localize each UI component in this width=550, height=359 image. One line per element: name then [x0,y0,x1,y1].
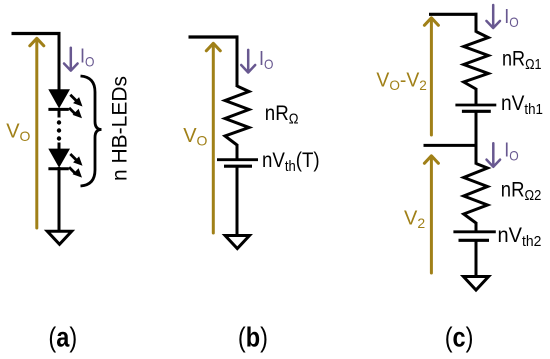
wire vertical-a1 [58,32,61,91]
wire junction node V2 [424,144,478,147]
arrow V_2 (c) [424,156,438,273]
wire battery1-to-resistor2 (c) [475,112,478,165]
wire resistor2-to-battery2 (c) [475,222,478,232]
svg-text:n HB-LEDs: n HB-LEDs [109,76,132,181]
arrow I_O (b) [241,50,255,73]
arrow V_O (a) [30,38,44,228]
resistor nR_Omega1 [464,32,489,90]
wire top-a [12,32,61,35]
dots (series continuation) [57,120,61,140]
LED D1 [48,89,82,118]
wire vertical-b1 [236,36,239,88]
arrow V_O-V_2 (c) [424,18,438,135]
brace n HB-LEDs [81,76,102,186]
arrow I_O top (c) [486,5,500,28]
resistor nR_Omega [225,86,249,145]
LED D2 [48,149,82,178]
wire battery2-to-ground (c) [475,241,478,277]
ground (c) [463,277,488,291]
wire stub-a1 [58,108,61,118]
wire top-c [429,13,478,16]
ground (b) [225,236,249,249]
wire vertical-c1 [475,13,478,33]
wire top-b [189,35,239,38]
battery nV_th(T) [217,160,258,167]
wire vertical-a2 [58,167,61,231]
battery nV_th1 [455,105,496,111]
svg-text:(c): (c) [445,323,474,353]
wire resistor1-to-battery1 (c) [475,88,478,105]
arrow I_O (a) [64,48,78,71]
wire resistor-to-battery (b) [236,144,239,160]
battery nV_th2 [453,232,495,241]
wire battery-to-ground (b) [236,167,239,235]
ground (a) [47,231,71,244]
arrow I_O mid (c) [487,143,501,167]
svg-text:(a): (a) [48,323,77,353]
svg-text:VO-V2: VO-V2 [376,69,426,93]
wire stub-a2 [58,143,61,152]
svg-text:(b): (b) [238,323,268,353]
resistor nR_Omega2 [464,164,488,224]
arrow V_O (b) [206,43,220,233]
